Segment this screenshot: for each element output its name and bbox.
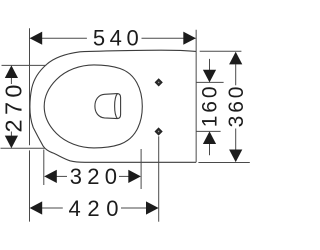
flush opening inner lens (115, 94, 118, 119)
left extension line upper (29, 28, 31, 145)
toilet outer outline (30, 50, 196, 162)
dim 420 line right (121, 207, 146, 209)
dim 360 stem bottom (235, 129, 237, 151)
arrow 160 bottom (points up) (203, 131, 216, 144)
svg-text:360: 360 (225, 84, 248, 128)
extension line 270 top (2, 64, 47, 66)
left extension line lower part (29, 150, 31, 221)
bolt hole bottom (155, 128, 162, 135)
flush opening body (95, 94, 121, 119)
dim 420 line left (42, 207, 63, 209)
extension line 320 left (43, 150, 45, 186)
dim 270 stem bottom (10, 132, 12, 137)
arrow 420 right (146, 201, 159, 214)
svg-text:320: 320 (70, 164, 123, 189)
svg-text:540: 540 (93, 25, 144, 50)
arrow 320 right (128, 170, 141, 183)
extension line 320 right (140, 149, 142, 189)
arrow 360 bottom (points down) (229, 150, 242, 163)
dim 540 line left (31, 37, 87, 39)
bolt hole top (155, 79, 162, 86)
wall line (195, 30, 197, 163)
arrow 540 right (183, 32, 196, 45)
extension 360 top (200, 50, 242, 52)
svg-text:160: 160 (198, 84, 221, 128)
svg-text:420: 420 (69, 196, 126, 221)
arrow 420 left (30, 201, 43, 214)
arrow 270 top (5, 65, 18, 78)
extension line 270 bottom (1, 147, 45, 149)
arrow 160 top (points down) (203, 70, 216, 83)
dim 320 line left (56, 175, 67, 177)
dim 160 stem bottom (209, 144, 211, 155)
tick bolt bottom (196, 130, 221, 132)
dim 270 stem top (10, 77, 12, 84)
arrow 320 left (44, 170, 57, 183)
arrow 270 bottom (5, 136, 18, 149)
arrow 360 top (points up) (229, 52, 242, 65)
dim 160 stem top (209, 59, 211, 71)
toilet inner rim (44, 65, 142, 148)
svg-text:270: 270 (1, 80, 27, 132)
dim 320 line right (119, 175, 129, 177)
extension line bolts vertical (158, 136, 160, 221)
dim 360 stem top (235, 64, 237, 85)
arrow 540 left (30, 32, 43, 45)
tick bolt top (196, 81, 224, 83)
dim 540 line right (142, 37, 196, 39)
extension bottom edge right (198, 162, 249, 164)
